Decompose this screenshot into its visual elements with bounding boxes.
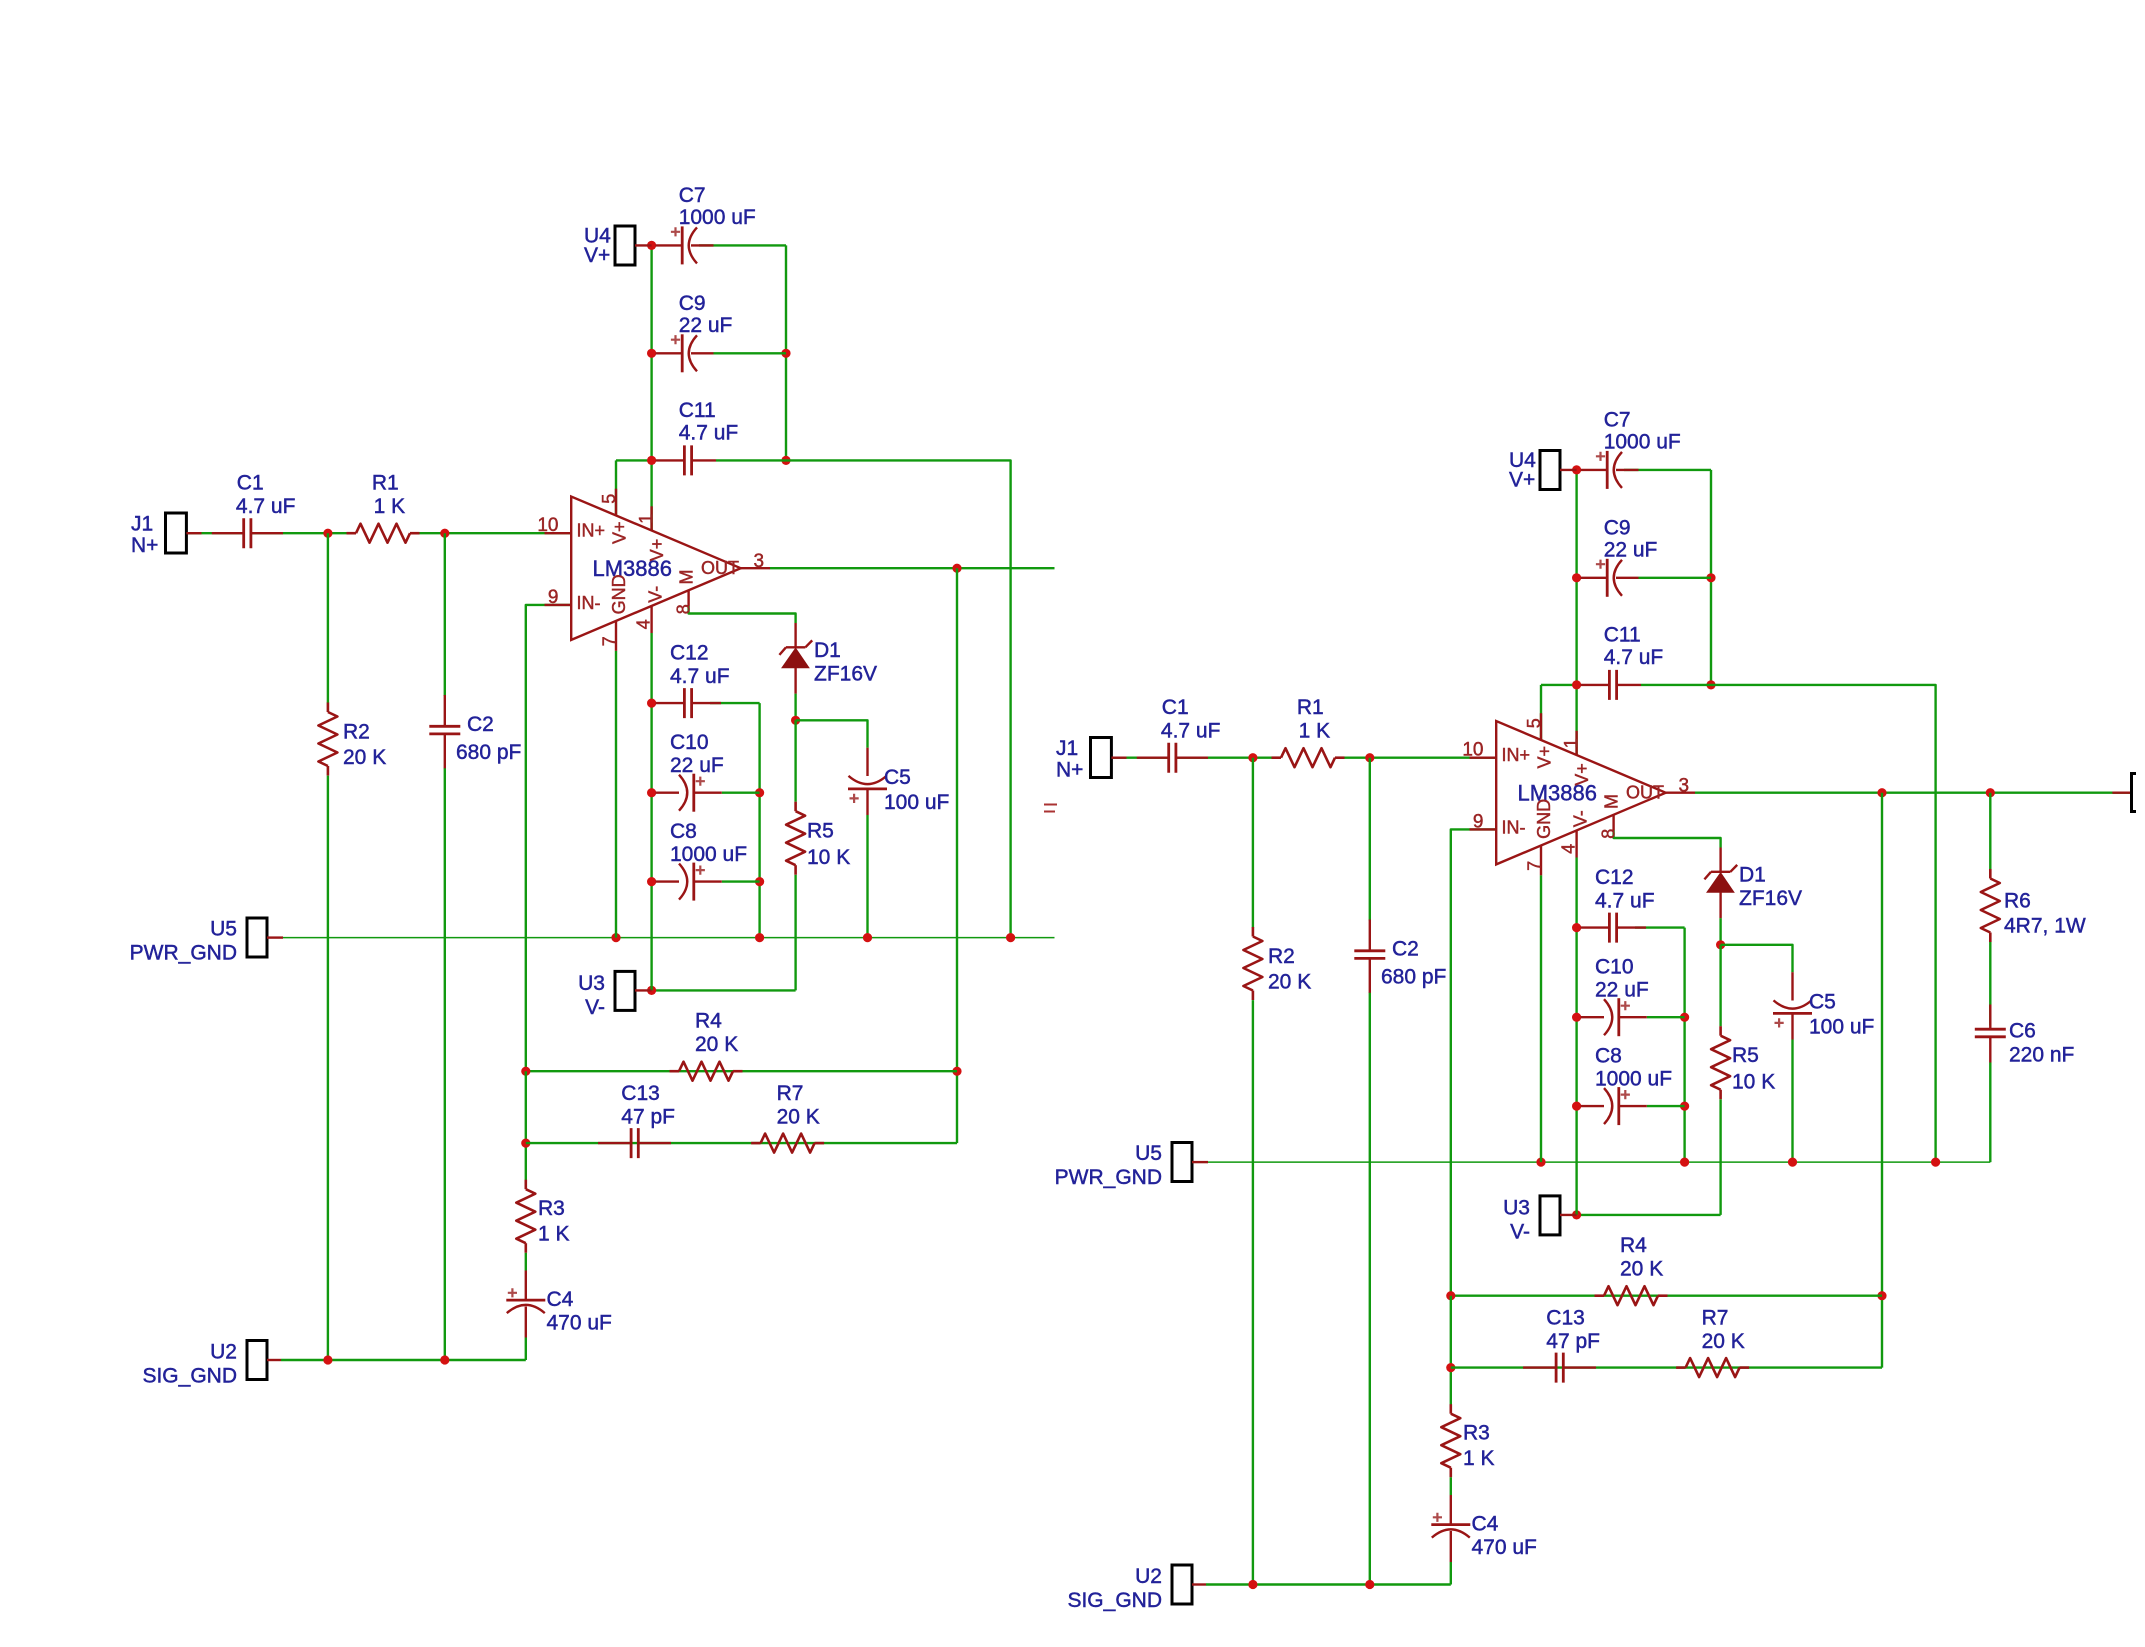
stray mark between channels [1044, 805, 1057, 812]
svg-text:4.7 uF: 4.7 uF [1604, 646, 1664, 669]
wire C6 to PWR_GND [1989, 1063, 1991, 1163]
resistor R3 1 K [516, 1189, 535, 1243]
svg-text:N+: N+ [131, 534, 158, 557]
node C13 left junction [1446, 1363, 1455, 1372]
node PWR_GND decoupling junction [755, 933, 764, 942]
wire C11 row to far right and down to PWR_GND [786, 460, 1011, 937]
wire C2 rail vertical [1369, 758, 1371, 921]
resistor R1 1 K [356, 524, 410, 543]
wire D1 junction to C5 [1721, 945, 1793, 972]
node input junction A (C1/R2) [323, 529, 332, 538]
resistor R2 20 K [1243, 937, 1262, 991]
capacitor C8 1000 uF [1617, 1087, 1620, 1125]
wire C10 right segment [1647, 1016, 1685, 1018]
svg-text:OUT: OUT [1626, 783, 1664, 803]
wire IN- rail to C13/R3 [1450, 1296, 1452, 1411]
svg-text:OUT: OUT [701, 558, 739, 578]
wire OUT net [1695, 792, 2130, 794]
wire R5 vertical [794, 720, 796, 801]
svg-text:C12: C12 [1595, 866, 1634, 889]
wire C11 row to far right and down to PWR_GND [1711, 685, 1936, 1162]
resistor R5 10 K [1711, 1036, 1730, 1090]
node C12 left junction [647, 699, 656, 708]
svg-text:4.7 uF: 4.7 uF [236, 495, 296, 518]
svg-text:IN-: IN- [577, 593, 601, 613]
resistor R4 20 K [1604, 1286, 1658, 1305]
wire pin8 mute net [689, 606, 796, 623]
svg-text:47 pF: 47 pF [621, 1106, 675, 1129]
wire IN- rail to C13/R3 [525, 1071, 527, 1186]
svg-text:1000 uF: 1000 uF [1604, 431, 1681, 454]
wire C13/R7 row [526, 1142, 957, 1144]
op-amp U1 LM3886 [571, 497, 741, 640]
wire R3 to C4 [1450, 1477, 1452, 1495]
svg-text:R3: R3 [1463, 1422, 1490, 1445]
node PWR_GND C5 junction [863, 933, 872, 942]
svg-text:PWR_GND: PWR_GND [1055, 1166, 1162, 1189]
svg-text:220 nF: 220 nF [2009, 1044, 2074, 1067]
svg-text:V+: V+ [1572, 763, 1592, 786]
wire D1 junction to C5 [796, 720, 868, 747]
pin 4 V- [650, 606, 652, 633]
op-amp U1 LM3886 [1496, 721, 1666, 864]
node C8 left junction [1572, 1102, 1581, 1111]
node C11 right junction [1706, 680, 1715, 689]
svg-text:20 K: 20 K [695, 1033, 738, 1056]
wire C5 lower segment [1791, 1040, 1793, 1163]
svg-text:C11: C11 [679, 399, 716, 422]
svg-text:20 K: 20 K [1702, 1330, 1745, 1353]
pin 10 IN+ [1470, 757, 1497, 759]
node PWR_GND V+ return junction [1931, 1158, 1940, 1167]
svg-text:100 uF: 100 uF [884, 791, 949, 814]
node SIG_GND R2 junction [323, 1355, 332, 1364]
node C10 left junction [1572, 1013, 1581, 1022]
svg-text:C2: C2 [1392, 938, 1419, 961]
svg-text:5: 5 [1524, 718, 1544, 728]
svg-text:C13: C13 [621, 1082, 660, 1105]
svg-text:R2: R2 [1268, 945, 1295, 968]
node R4 right junction [1877, 1291, 1886, 1300]
pin 3 OUT [1666, 792, 1695, 794]
wire R2 rail vertical [1252, 758, 1254, 928]
svg-text:C7: C7 [679, 184, 706, 207]
svg-text:20 K: 20 K [343, 746, 386, 769]
svg-text:R1: R1 [1297, 696, 1324, 719]
capacitor C9 22 uF [1606, 559, 1609, 597]
svg-text:4.7 uF: 4.7 uF [1161, 719, 1221, 742]
node C8 left junction [647, 877, 656, 886]
connector J1 [166, 513, 187, 553]
node SIG_GND C2 junction [1365, 1580, 1374, 1589]
resistor R3 1 K [1441, 1414, 1460, 1468]
pin 10 IN+ [545, 532, 572, 534]
pin 9 IN- [1470, 828, 1497, 830]
diode D1 ZF16V zener [794, 623, 796, 647]
wire C1 to junction and R1 [1176, 757, 1281, 759]
wire V+ right rail vertical [1710, 470, 1712, 685]
svg-text:470 uF: 470 uF [547, 1312, 612, 1335]
node junction B (R1/C2/IN+) [440, 529, 449, 538]
node C10 left junction [647, 788, 656, 797]
pin 9 IN- [545, 604, 572, 606]
wire GND pin7 rail [615, 651, 617, 938]
wire R4 row [526, 1070, 957, 1072]
svg-text:47 pF: 47 pF [1546, 1330, 1600, 1353]
connector U3 V- [615, 971, 635, 1010]
svg-text:D1: D1 [1739, 864, 1766, 887]
node C9 right junction [1706, 573, 1715, 582]
svg-text:C11: C11 [1604, 624, 1641, 647]
svg-text:9: 9 [1473, 811, 1484, 832]
resistor R7 20 K [761, 1134, 815, 1153]
wire C8 right segment [1647, 1105, 1685, 1107]
svg-text:7: 7 [600, 636, 620, 646]
node C8 right junction [755, 877, 764, 886]
svg-text:R3: R3 [538, 1197, 565, 1220]
svg-text:C1: C1 [1162, 696, 1189, 719]
svg-text:680 pF: 680 pF [456, 741, 521, 764]
svg-text:IN+: IN+ [577, 521, 606, 541]
svg-text:R1: R1 [372, 471, 399, 494]
wire SIG_GND net [281, 1359, 526, 1361]
svg-text:C5: C5 [884, 766, 911, 789]
wire C11 row left segment [616, 459, 652, 461]
svg-text:C9: C9 [679, 292, 706, 315]
wire R5 vertical [1719, 945, 1721, 1026]
svg-text:20 K: 20 K [1268, 971, 1311, 994]
resistor R1 1 K [1281, 748, 1335, 767]
resistor R2 20 K [318, 712, 337, 766]
node C13 left junction [521, 1139, 530, 1148]
capacitor C2 680 pF [1354, 951, 1385, 959]
node C10 right junction [1680, 1013, 1689, 1022]
wire SIG_GND net [1206, 1583, 1451, 1585]
wire V- rail C12/C10/C8 [1575, 858, 1577, 1215]
capacitor C7 1000 uF [681, 226, 684, 264]
capacitor C2 680 pF [429, 726, 460, 734]
svg-text:20 K: 20 K [1620, 1258, 1663, 1281]
svg-text:10: 10 [1462, 740, 1483, 761]
wire input net J1 to C1 [186, 532, 243, 534]
svg-text:22 uF: 22 uF [1604, 539, 1658, 562]
connector U2 SIG_GND [247, 1341, 267, 1380]
svg-text:8: 8 [674, 604, 694, 614]
svg-text:1000 uF: 1000 uF [1595, 1068, 1672, 1091]
svg-text:U3: U3 [578, 972, 605, 995]
wire C5 lower segment [866, 815, 868, 938]
wire PWR_GND net [1192, 1161, 1991, 1163]
svg-text:GND: GND [1534, 799, 1554, 839]
right channel [1055, 408, 2136, 1612]
svg-text:R2: R2 [343, 721, 370, 744]
wire C11 row left segment [1541, 684, 1577, 686]
wire V- rail C12/C10/C8 [650, 633, 652, 990]
svg-text:U2: U2 [1135, 1565, 1162, 1588]
node U4/C7 junction [1572, 465, 1581, 474]
wire C13/R7 row [1451, 1366, 1882, 1368]
node C11 left junction [1572, 680, 1581, 689]
svg-text:C4: C4 [1472, 1513, 1499, 1536]
svg-text:C9: C9 [1604, 516, 1631, 539]
wire C1 to junction and R1 [251, 532, 356, 534]
svg-text:3: 3 [1679, 776, 1690, 797]
wire pin5 V+ branch [1540, 685, 1542, 740]
wire IN- net [526, 605, 571, 1071]
node U3 junction [1572, 1210, 1581, 1219]
wire C12 right segment [1635, 926, 1685, 928]
svg-text:U5: U5 [1135, 1142, 1162, 1165]
svg-text:R7: R7 [1702, 1307, 1729, 1330]
svg-text:22 uF: 22 uF [679, 314, 733, 337]
svg-text:C7: C7 [1604, 408, 1631, 431]
svg-text:U3: U3 [1503, 1197, 1530, 1220]
wire C7 right to V+ right rail [699, 244, 786, 246]
connector U5 PWR_GND [1172, 1143, 1192, 1182]
wire R5 bottom to U3 junction [1577, 1214, 1721, 1216]
diode D1 ZF16V zener [1719, 848, 1721, 872]
capacitor C5 100 uF [848, 788, 887, 791]
wire decoupling right rail [758, 703, 760, 938]
svg-text:U2: U2 [210, 1341, 237, 1364]
svg-text:1000 uF: 1000 uF [670, 843, 747, 866]
svg-text:680 pF: 680 pF [1381, 966, 1446, 989]
node U3 junction [647, 986, 656, 995]
svg-text:4: 4 [634, 619, 654, 629]
node C9 left junction [647, 349, 656, 358]
capacitor C11 4.7 uF [1609, 670, 1616, 700]
wire C12 right segment [710, 702, 760, 704]
node PWR_GND V+ return junction [1006, 933, 1015, 942]
svg-text:5: 5 [599, 494, 619, 504]
node SIG_GND C2 junction [440, 1355, 449, 1364]
wire decoupling right rail [1683, 928, 1685, 1163]
capacitor C5 100 uF [1773, 1012, 1812, 1015]
svg-text:1 K: 1 K [374, 495, 406, 518]
capacitor C13 47 pF [631, 1128, 638, 1158]
svg-text:8: 8 [1599, 829, 1619, 839]
resistor R4 20 K [679, 1062, 733, 1081]
svg-text:470 uF: 470 uF [1472, 1536, 1537, 1559]
connector U5 PWR_GND [247, 918, 267, 957]
node PWR_GND pin7 junction [1536, 1158, 1545, 1167]
node PWR_GND decoupling junction [1680, 1158, 1689, 1167]
pin 1 V+ [1575, 731, 1577, 756]
node C11 right junction [781, 456, 790, 465]
node R4 left junction [1446, 1291, 1455, 1300]
svg-text:1: 1 [636, 514, 656, 524]
resistor R6 4R7 1W [1981, 879, 2000, 933]
svg-text:4.7 uF: 4.7 uF [670, 665, 730, 688]
pin 4 V- [1575, 831, 1577, 858]
svg-text:PWR_GND: PWR_GND [130, 942, 237, 965]
connector U2 SIG_GND [1172, 1565, 1192, 1604]
wire V+ rail pin1 [650, 245, 652, 531]
capacitor C10 22 uF [1617, 998, 1620, 1036]
svg-text:3: 3 [754, 551, 765, 572]
node SIG_GND R2 junction [1248, 1580, 1257, 1589]
svg-text:ZF16V: ZF16V [814, 663, 877, 686]
wire C8 right segment [722, 880, 760, 882]
wire R2 rail vertical [327, 533, 329, 703]
svg-text:1 K: 1 K [1463, 1447, 1495, 1470]
svg-text:R5: R5 [807, 820, 834, 843]
svg-text:C8: C8 [1595, 1045, 1622, 1068]
resistor R5 10 K [786, 811, 805, 865]
node C10 right junction [755, 788, 764, 797]
svg-text:U5: U5 [210, 917, 237, 940]
svg-text:M: M [1602, 794, 1622, 809]
capacitor C1 4.7 uF [244, 518, 251, 548]
node PWR_GND pin7 junction [611, 933, 620, 942]
svg-text:C6: C6 [2009, 1020, 2036, 1043]
node C8 right junction [1680, 1102, 1689, 1111]
wire OUT net [770, 567, 1055, 569]
svg-text:C5: C5 [1809, 991, 1836, 1014]
capacitor C10 22 uF [692, 774, 695, 812]
connector output J2 [2132, 774, 2137, 812]
svg-text:10: 10 [537, 515, 558, 536]
svg-text:V+: V+ [610, 521, 630, 544]
svg-text:1 K: 1 K [1299, 719, 1331, 742]
node OUT junction [1877, 788, 1886, 797]
svg-text:D1: D1 [814, 639, 841, 662]
node C9 left junction [1572, 573, 1581, 582]
svg-text:C2: C2 [467, 713, 494, 736]
wire pin5 V+ branch [615, 460, 617, 515]
svg-text:4R7, 1W: 4R7, 1W [2004, 915, 2086, 938]
svg-text:M: M [677, 570, 697, 585]
capacitor C9 22 uF [681, 334, 684, 372]
svg-text:100 uF: 100 uF [1809, 1016, 1874, 1039]
node C12 left junction [1572, 923, 1581, 932]
pin 7 GND [1540, 845, 1542, 875]
node R4 left junction [521, 1067, 530, 1076]
svg-text:SIG_GND: SIG_GND [1067, 1589, 1162, 1612]
wire V+ rail pin1 [1575, 470, 1577, 756]
svg-text:IN+: IN+ [1502, 745, 1531, 765]
svg-text:22 uF: 22 uF [1595, 979, 1649, 1002]
svg-text:C10: C10 [1595, 956, 1634, 979]
node C11 left junction [647, 456, 656, 465]
wire GND pin7 rail [1540, 875, 1542, 1162]
svg-text:20 K: 20 K [777, 1106, 820, 1129]
pin 5 V+ [615, 489, 617, 516]
node C9 right junction [781, 349, 790, 358]
wire OUT vertical to feedback [1881, 793, 1883, 1368]
capacitor C13 47 pF [1556, 1353, 1563, 1383]
wire IN- net [1451, 829, 1496, 1295]
svg-text:V-: V- [1571, 810, 1591, 827]
connector U3 V- [1540, 1196, 1560, 1235]
svg-text:9: 9 [548, 587, 559, 608]
capacitor C7 1000 uF [1606, 451, 1609, 489]
svg-text:R4: R4 [695, 1010, 722, 1033]
capacitor C12 4.7 uF [1609, 913, 1616, 943]
wire input net J1 to C1 [1111, 757, 1168, 759]
svg-text:R4: R4 [1620, 1234, 1647, 1257]
wire V+ right rail vertical [785, 245, 787, 460]
node D1 bottom junction [1716, 940, 1725, 949]
wire OUT vertical to feedback [956, 568, 958, 1143]
svg-text:J1: J1 [131, 513, 153, 536]
svg-text:10 K: 10 K [807, 846, 850, 869]
svg-text:1000 uF: 1000 uF [679, 206, 756, 229]
pin 1 V+ [650, 506, 652, 531]
svg-text:V-: V- [646, 586, 666, 603]
capacitor C4 470 uF [1431, 1523, 1470, 1526]
svg-text:7: 7 [1525, 861, 1545, 871]
svg-text:4: 4 [1559, 844, 1579, 854]
svg-text:R7: R7 [777, 1082, 804, 1105]
wire OUT to R6 [1989, 793, 1991, 869]
wire C4 to SIG_GND corner [525, 1338, 527, 1361]
svg-text:1: 1 [1561, 738, 1581, 748]
pin 7 GND [615, 621, 617, 651]
svg-text:J1: J1 [1056, 737, 1078, 760]
svg-text:4.7 uF: 4.7 uF [1595, 890, 1655, 913]
pin 8 M [687, 591, 689, 606]
wire C4 to SIG_GND corner [1450, 1562, 1452, 1585]
wire R1 to IN+ pin [1335, 757, 1496, 759]
node D1 bottom junction [791, 716, 800, 725]
connector U4 V+ [615, 226, 635, 265]
svg-text:ZF16V: ZF16V [1739, 887, 1802, 910]
node junction B (R1/C2/IN+) [1365, 753, 1374, 762]
svg-text:4.7 uF: 4.7 uF [679, 422, 739, 445]
svg-text:R5: R5 [1732, 1044, 1759, 1067]
pin 3 OUT [741, 567, 770, 569]
svg-text:V+: V+ [1535, 746, 1555, 769]
svg-text:C10: C10 [670, 731, 709, 754]
capacitor C6 220 nF [1975, 1029, 2006, 1037]
svg-text:SIG_GND: SIG_GND [142, 1365, 237, 1388]
svg-text:C13: C13 [1546, 1307, 1585, 1330]
svg-text:V+: V+ [1509, 469, 1535, 492]
node input junction A (C1/R2) [1248, 753, 1257, 762]
connector U4 V+ [1540, 451, 1560, 490]
node R6 junction on OUT net [1986, 788, 1995, 797]
svg-text:C4: C4 [547, 1288, 574, 1311]
svg-text:GND: GND [609, 574, 629, 614]
svg-text:C8: C8 [670, 820, 697, 843]
wire R6 to C6 [1989, 942, 1991, 1026]
wire PWR_GND net [283, 937, 1055, 939]
capacitor C12 4.7 uF [684, 688, 691, 718]
wire pin8 mute net [1614, 831, 1721, 848]
svg-text:V-: V- [1510, 1221, 1530, 1244]
connector J1 [1091, 738, 1112, 778]
node OUT junction [952, 564, 961, 573]
pin 5 V+ [1540, 713, 1542, 740]
svg-text:R6: R6 [2004, 890, 2031, 913]
node U4/C7 junction [647, 241, 656, 250]
wire C10 right segment [722, 792, 760, 794]
wire C2 rail vertical [444, 533, 446, 696]
svg-text:IN-: IN- [1502, 818, 1526, 838]
wire R3 to C4 [525, 1253, 527, 1271]
capacitor C4 470 uF [506, 1299, 545, 1302]
svg-text:10 K: 10 K [1732, 1071, 1775, 1094]
wire D1 to junction [794, 694, 796, 721]
svg-text:V+: V+ [647, 539, 667, 562]
svg-text:C1: C1 [237, 471, 264, 494]
svg-text:1 K: 1 K [538, 1223, 570, 1246]
svg-text:N+: N+ [1056, 758, 1083, 781]
wire D1 to junction [1719, 918, 1721, 945]
svg-text:V-: V- [585, 996, 605, 1019]
capacitor C11 4.7 uF [684, 445, 691, 475]
